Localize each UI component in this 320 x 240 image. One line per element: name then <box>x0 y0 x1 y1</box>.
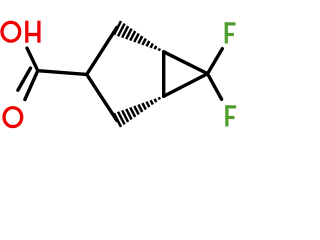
label OH (hydroxyl): letter H <box>27 21 39 43</box>
bond C3-C4 <box>87 74 117 120</box>
bond C6-F top <box>208 49 223 74</box>
hashed wedge bond C2-C1 (stereo, wide at C2) <box>114 21 160 51</box>
bond C7-OH (single bond to hydroxyl O) <box>27 48 38 71</box>
bond C1-C5 (cyclopropane fusion bond) <box>162 52 165 96</box>
bond C5-C6 <box>164 74 208 97</box>
bond C1-C6 <box>164 52 208 74</box>
bond C7=O main line (carbonyl double bond, outer line) <box>25 71 38 100</box>
hashed wedge bond C4-C5 (stereo, wide at C4) <box>114 97 160 127</box>
chemical structure: 6,6-difluorobicyclo[3.1.0]hexane-3-carboxylic acid <box>0 0 242 150</box>
bond C6-F bottom <box>208 74 222 100</box>
bond C7-C3 <box>38 71 87 75</box>
label OH (hydroxyl): letter O <box>2 22 20 41</box>
bond C7=O second line (carbonyl double bond, inner line) <box>18 68 31 90</box>
label O (carbonyl oxygen) <box>4 108 22 127</box>
label F top fluorine <box>225 22 236 43</box>
bond C3-C2 <box>87 28 117 75</box>
label F bottom fluorine <box>225 105 236 126</box>
